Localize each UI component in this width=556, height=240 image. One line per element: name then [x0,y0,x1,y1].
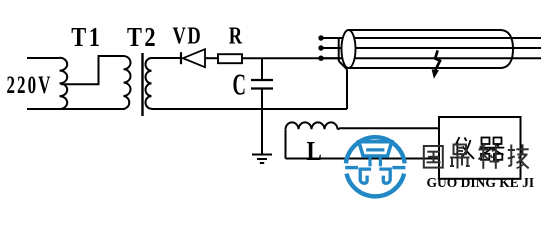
capacitor C plates [251,80,273,89]
capacitor C top lead [261,58,263,80]
capacitor C bottom lead to ground [261,89,263,155]
svg-text:VD: VD [173,22,203,49]
cable core wires left of sheath [321,38,343,58]
wire bottom rail T2 secondary to cable [152,108,348,110]
watermark text 国鼎科技 hand-drawn [424,144,529,169]
wire 220V top lead [27,57,60,59]
svg-text:T2: T2 [127,23,158,52]
wire inductor to instrument box [338,128,440,129]
科 [480,144,486,147]
cable sheath right end [500,30,513,68]
svg-text:C: C [233,66,246,101]
svg-text:T1: T1 [71,23,102,52]
svg-text:220V: 220V [7,71,53,99]
wire cable down to bottom rail [346,69,348,109]
svg-text:GUO DING KE JI: GUO DING KE JI [427,175,535,190]
国 [424,146,443,168]
transformer T2 core [141,53,143,116]
wire T1 tap to T2 primary [61,56,124,84]
wire shorting bar to sheath bottom [339,61,347,69]
node dot core 3 [318,56,323,61]
cable sheath body [349,30,501,68]
仪 [456,137,460,145]
svg-text:R: R [229,22,243,49]
wire diode to resistor [205,57,218,59]
transformer T2 secondary winding [146,58,152,109]
transformer T2 primary winding [124,56,131,109]
wire resistor to cable (top rail) [242,57,342,59]
diode VD triangle [183,49,205,67]
watermark logo ding symbol [345,142,405,184]
wire T2 secondary top to diode [152,57,182,59]
inductor L left lead [285,129,287,158]
watermark logo ring [346,137,405,196]
cable wires inside sheath [355,38,541,58]
node dot core 2 [318,45,323,50]
instrument box [439,117,521,179]
inductor L winding [286,122,338,129]
cable sheath left end ellipse [342,30,356,68]
resistor R [218,54,242,63]
wire shorting bar across cores [338,37,340,61]
ground [252,155,272,164]
node dot core 1 [318,35,323,40]
wire 220V bottom rail to T2 primary [27,108,125,110]
wire loop bottom to instrument box [286,158,440,160]
fault lightning symbol [435,50,440,70]
鼎 [454,145,467,155]
器 [482,138,490,145]
transformer T1 winding (autotransformer) [60,58,68,109]
svg-text:L: L [307,137,322,166]
diode VD cathode bar [180,52,182,64]
技 [508,149,515,151]
label 仪器 (instrument) hand-drawn [456,137,505,160]
